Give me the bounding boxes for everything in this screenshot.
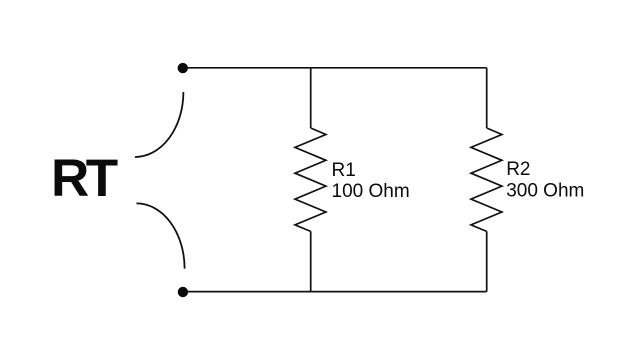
svg-text:R1: R1	[332, 160, 356, 181]
svg-text:300 Ohm: 300 Ohm	[506, 181, 584, 202]
svg-text:100 Ohm: 100 Ohm	[332, 181, 410, 202]
resistor R1	[295, 128, 326, 231]
brace arc top	[135, 92, 184, 157]
svg-text:RT: RT	[51, 149, 118, 208]
wire bottom bus	[183, 291, 487, 293]
wire R2 bottom lead	[486, 231, 488, 291]
wire R1 top lead	[310, 68, 312, 128]
node top terminal	[178, 63, 188, 73]
brace arc bottom	[137, 203, 185, 268]
wire R2 top lead	[486, 68, 488, 128]
wire top bus	[183, 67, 487, 69]
svg-text:R2: R2	[506, 159, 530, 180]
wire R1 bottom lead	[310, 231, 312, 291]
node bottom terminal	[178, 287, 188, 297]
resistor R2	[471, 128, 502, 231]
